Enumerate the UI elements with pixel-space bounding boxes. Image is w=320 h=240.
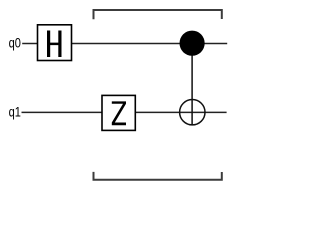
svg-text:q1: q1 — [9, 104, 21, 120]
CNOT control dot — [180, 31, 205, 56]
qubit label q0 — [9, 34, 21, 50]
wire q0 — [22, 43, 227, 45]
wire q1 — [22, 111, 227, 113]
Z gate letter — [112, 101, 126, 125]
H gate letter — [47, 31, 62, 58]
top bracket — [94, 10, 222, 19]
bottom bracket — [94, 172, 222, 180]
H gate box U1 — [38, 25, 72, 61]
CNOT vertical wire — [191, 43, 193, 125]
qubit label q1 — [9, 104, 21, 120]
CNOT target circle — [180, 100, 205, 125]
Z gate box — [102, 95, 135, 130]
svg-text:q0: q0 — [9, 34, 21, 50]
